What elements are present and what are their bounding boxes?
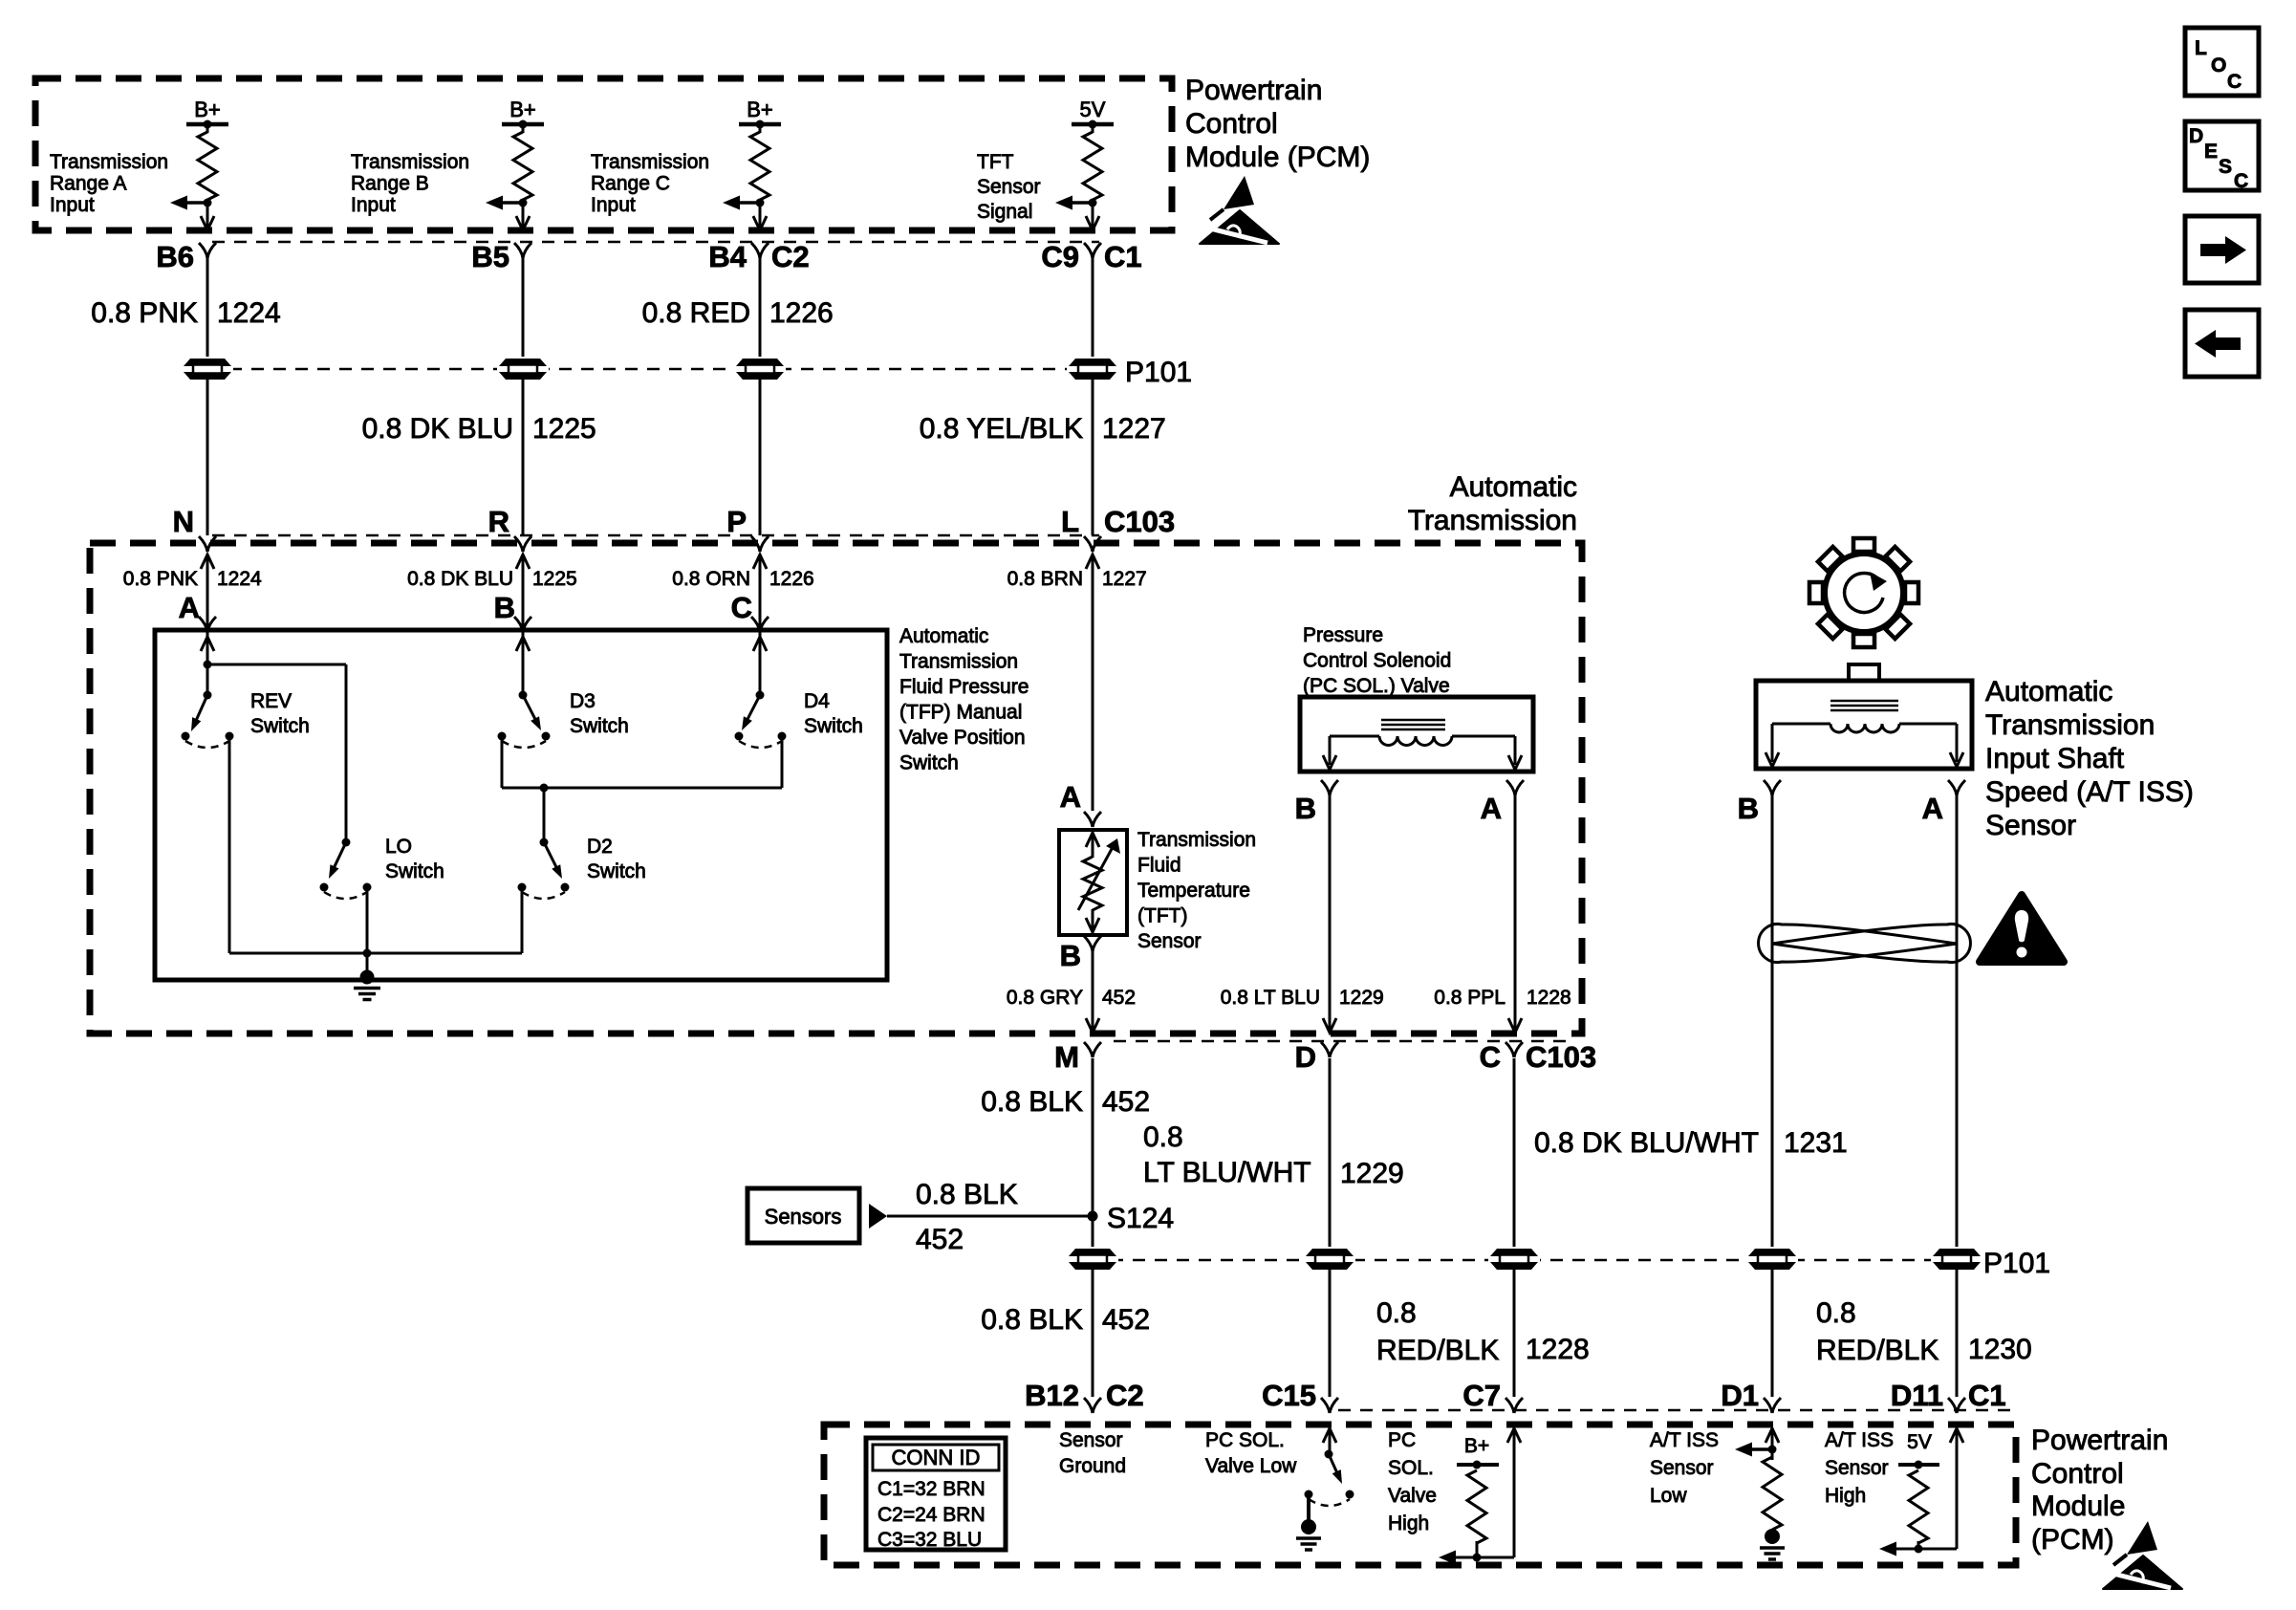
svg-text:1226: 1226 [769, 568, 814, 590]
svg-text:Switch: Switch [385, 860, 444, 882]
svg-text:P: P [726, 505, 747, 538]
svg-text:0.8 PNK: 0.8 PNK [123, 568, 198, 590]
svg-text:Ground: Ground [1059, 1455, 1126, 1477]
svg-text:S: S [2219, 156, 2232, 178]
svg-text:B+: B+ [747, 98, 773, 121]
svg-text:Input: Input [351, 194, 396, 216]
svg-text:0.8: 0.8 [1143, 1121, 1183, 1153]
svg-text:C1: C1 [1968, 1379, 2006, 1412]
svg-text:Switch: Switch [899, 752, 959, 774]
svg-text:(PCM): (PCM) [2031, 1524, 2114, 1556]
svg-text:1224: 1224 [217, 297, 281, 329]
svg-text:1227: 1227 [1102, 568, 1147, 590]
svg-text:Transmission: Transmission [1408, 505, 1577, 536]
svg-text:Control: Control [2031, 1458, 2124, 1490]
svg-text:Temperature: Temperature [1137, 880, 1250, 902]
svg-text:452: 452 [1102, 987, 1136, 1009]
svg-text:B: B [1060, 939, 1081, 972]
svg-text:0.8 RED: 0.8 RED [642, 297, 750, 329]
svg-text:Transmission: Transmission [351, 151, 469, 173]
svg-text:D2: D2 [587, 836, 613, 858]
svg-text:Sensors: Sensors [765, 1205, 842, 1229]
svg-text:Sensor: Sensor [1825, 1457, 1889, 1479]
svg-text:C15: C15 [1262, 1379, 1316, 1412]
svg-text:Module (PCM): Module (PCM) [1185, 141, 1370, 173]
svg-text:1226: 1226 [769, 297, 834, 329]
svg-text:High: High [1825, 1485, 1866, 1507]
svg-text:1224: 1224 [217, 568, 262, 590]
svg-text:Sensor: Sensor [1137, 930, 1202, 952]
svg-text:C: C [731, 591, 752, 624]
svg-text:452: 452 [1102, 1086, 1150, 1118]
svg-text:Transmission: Transmission [1985, 709, 2155, 741]
svg-text:Sensor: Sensor [1985, 810, 2076, 841]
svg-text:C2: C2 [1106, 1379, 1144, 1412]
svg-text:M: M [1054, 1040, 1079, 1074]
svg-text:B+: B+ [1464, 1435, 1489, 1457]
svg-text:PC: PC [1388, 1429, 1416, 1451]
svg-text:0.8 DK BLU: 0.8 DK BLU [407, 568, 513, 590]
svg-text:0.8 DK BLU: 0.8 DK BLU [362, 413, 513, 445]
svg-text:TFT: TFT [977, 151, 1014, 173]
svg-text:Valve Position: Valve Position [899, 727, 1026, 749]
svg-text:0.8 LT BLU: 0.8 LT BLU [1221, 987, 1320, 1009]
svg-text:0.8 GRY: 0.8 GRY [1007, 987, 1083, 1009]
svg-text:Module: Module [2031, 1490, 2125, 1522]
svg-text:452: 452 [1102, 1304, 1150, 1336]
svg-text:Switch: Switch [587, 860, 646, 882]
svg-text:A: A [1060, 780, 1081, 814]
svg-text:Powertrain: Powertrain [1185, 75, 1322, 106]
svg-text:LT BLU/WHT: LT BLU/WHT [1143, 1157, 1311, 1188]
svg-text:E: E [2204, 141, 2218, 163]
svg-text:B12: B12 [1025, 1379, 1079, 1412]
svg-text:Input Shaft: Input Shaft [1985, 743, 2125, 774]
svg-text:C1: C1 [1104, 240, 1142, 273]
svg-text:Sensor: Sensor [1650, 1457, 1714, 1479]
svg-text:Switch: Switch [570, 715, 629, 737]
svg-text:Sensor: Sensor [1059, 1429, 1123, 1451]
svg-text:1230: 1230 [1968, 1334, 2032, 1365]
svg-text:Control: Control [1185, 108, 1278, 140]
svg-text:Valve Low: Valve Low [1205, 1455, 1297, 1477]
svg-text:A/T ISS: A/T ISS [1650, 1429, 1719, 1451]
svg-text:Range A: Range A [50, 173, 127, 195]
svg-text:C: C [2227, 71, 2242, 93]
svg-text:C103: C103 [1526, 1040, 1596, 1074]
svg-text:Switch: Switch [804, 715, 863, 737]
svg-text:0.8 BLK: 0.8 BLK [916, 1179, 1018, 1210]
svg-text:C: C [2234, 170, 2248, 192]
svg-text:D3: D3 [570, 690, 596, 712]
svg-text:B: B [1738, 792, 1759, 825]
svg-text:452: 452 [916, 1224, 964, 1255]
svg-text:Automatic: Automatic [1450, 471, 1577, 503]
svg-text:C3=32 BLU: C3=32 BLU [877, 1529, 982, 1551]
svg-text:Fluid: Fluid [1137, 855, 1181, 877]
svg-text:D: D [2189, 125, 2203, 147]
svg-text:Switch: Switch [250, 715, 310, 737]
svg-text:1227: 1227 [1102, 413, 1166, 445]
svg-text:REV: REV [250, 690, 292, 712]
svg-text:Low: Low [1650, 1485, 1687, 1507]
svg-text:5V: 5V [1907, 1431, 1932, 1453]
svg-text:B: B [1295, 792, 1316, 825]
svg-text:CONN ID: CONN ID [892, 1446, 981, 1469]
svg-text:D: D [1295, 1040, 1316, 1074]
svg-text:C7: C7 [1462, 1379, 1501, 1412]
svg-text:C103: C103 [1104, 505, 1175, 538]
svg-text:Automatic: Automatic [1985, 676, 2112, 707]
svg-text:Transmission: Transmission [591, 151, 709, 173]
svg-text:1228: 1228 [1527, 987, 1571, 1009]
svg-text:Sensor: Sensor [977, 176, 1041, 198]
svg-text:PC SOL.: PC SOL. [1205, 1429, 1285, 1451]
svg-text:0.8 ORN: 0.8 ORN [672, 568, 750, 590]
svg-text:RED/BLK: RED/BLK [1816, 1335, 1939, 1366]
svg-text:Speed (A/T ISS): Speed (A/T ISS) [1985, 776, 2194, 808]
svg-text:C1=32 BRN: C1=32 BRN [877, 1478, 986, 1500]
svg-text:Transmission: Transmission [899, 651, 1018, 673]
svg-text:(PC SOL.) Valve: (PC SOL.) Valve [1303, 675, 1450, 697]
svg-text:Fluid Pressure: Fluid Pressure [899, 676, 1029, 698]
svg-text:B+: B+ [194, 98, 221, 121]
svg-text:Transmission: Transmission [50, 151, 168, 173]
svg-text:Pressure: Pressure [1303, 624, 1383, 646]
svg-text:Input: Input [50, 194, 95, 216]
svg-text:High: High [1388, 1512, 1429, 1534]
svg-text:O: O [2211, 54, 2226, 76]
svg-text:A/T ISS: A/T ISS [1825, 1429, 1894, 1451]
svg-text:A: A [1922, 792, 1943, 825]
svg-text:0.8 YEL/BLK: 0.8 YEL/BLK [920, 413, 1083, 445]
svg-text:Range C: Range C [591, 173, 670, 195]
svg-text:1228: 1228 [1526, 1334, 1590, 1365]
svg-text:B+: B+ [509, 98, 536, 121]
svg-text:1229: 1229 [1340, 1158, 1404, 1189]
svg-text:Automatic: Automatic [899, 625, 988, 647]
svg-text:B6: B6 [156, 240, 194, 273]
svg-text:A: A [1481, 792, 1502, 825]
svg-text:Valve: Valve [1388, 1485, 1437, 1507]
svg-text:0.8 BRN: 0.8 BRN [1007, 568, 1083, 590]
svg-text:0.8: 0.8 [1816, 1297, 1856, 1329]
svg-text:0.8 BLK: 0.8 BLK [981, 1304, 1083, 1336]
svg-text:C2: C2 [771, 240, 810, 273]
svg-text:L: L [1061, 505, 1079, 538]
svg-text:B: B [494, 591, 515, 624]
svg-text:Powertrain: Powertrain [2031, 1425, 2168, 1456]
svg-text:C: C [1480, 1040, 1501, 1074]
svg-text:SOL.: SOL. [1388, 1457, 1434, 1479]
svg-text:L: L [2195, 37, 2207, 59]
svg-text:D1: D1 [1721, 1379, 1759, 1412]
svg-text:Transmission: Transmission [1137, 829, 1256, 851]
svg-text:B5: B5 [471, 240, 509, 273]
svg-text:D4: D4 [804, 690, 830, 712]
svg-text:Range B: Range B [351, 173, 429, 195]
svg-text:1231: 1231 [1784, 1127, 1848, 1159]
svg-text:C9: C9 [1041, 240, 1079, 273]
svg-text:D11: D11 [1891, 1379, 1943, 1412]
svg-text:1225: 1225 [532, 568, 577, 590]
svg-text:1229: 1229 [1339, 987, 1384, 1009]
svg-text:Signal: Signal [977, 201, 1032, 223]
svg-text:0.8: 0.8 [1376, 1297, 1417, 1329]
svg-text:A: A [179, 591, 200, 624]
svg-text:1225: 1225 [532, 413, 596, 445]
svg-text:0.8 PNK: 0.8 PNK [91, 297, 198, 329]
svg-text:P101: P101 [1125, 357, 1192, 388]
svg-text:LO: LO [385, 836, 412, 858]
svg-text:Input: Input [591, 194, 636, 216]
svg-text:(TFP) Manual: (TFP) Manual [899, 702, 1022, 724]
svg-text:B4: B4 [708, 240, 747, 273]
svg-text:Control Solenoid: Control Solenoid [1303, 650, 1451, 672]
svg-text:0.8 BLK: 0.8 BLK [981, 1086, 1083, 1118]
svg-text:P101: P101 [1983, 1248, 2050, 1279]
svg-text:S124: S124 [1107, 1203, 1174, 1234]
svg-text:(TFT): (TFT) [1137, 905, 1187, 927]
svg-text:RED/BLK: RED/BLK [1376, 1335, 1499, 1366]
svg-text:0.8 PPL: 0.8 PPL [1434, 987, 1505, 1009]
svg-text:R: R [488, 505, 509, 538]
svg-text:0.8 DK BLU/WHT: 0.8 DK BLU/WHT [1534, 1127, 1759, 1159]
svg-text:5V: 5V [1080, 98, 1106, 121]
svg-text:N: N [173, 505, 194, 538]
svg-text:C2=24 BRN: C2=24 BRN [877, 1504, 986, 1526]
